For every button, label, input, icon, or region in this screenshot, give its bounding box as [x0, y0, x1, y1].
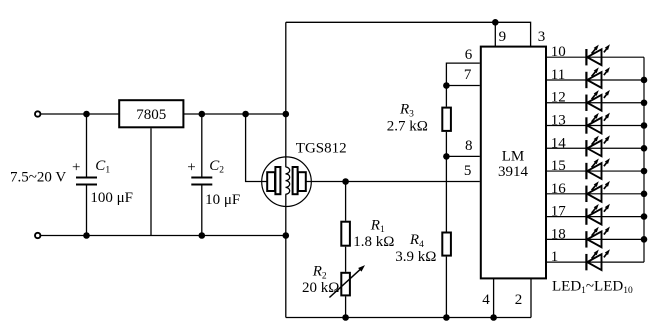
svg-text:7: 7: [464, 67, 472, 83]
svg-text:5: 5: [464, 163, 472, 179]
svg-text:10: 10: [551, 44, 566, 60]
svg-text:TGS812: TGS812: [296, 140, 347, 156]
svg-text:20 kΩ: 20 kΩ: [302, 280, 339, 296]
svg-text:LED1~LED10: LED1~LED10: [552, 279, 633, 297]
svg-text:7.5~20 V: 7.5~20 V: [10, 169, 66, 185]
svg-text:6: 6: [465, 47, 473, 63]
svg-text:7805: 7805: [136, 107, 166, 123]
svg-text:3914: 3914: [498, 164, 529, 180]
svg-text:12: 12: [551, 90, 566, 106]
svg-text:16: 16: [551, 181, 567, 197]
svg-text:13: 13: [551, 113, 566, 129]
svg-text:9: 9: [499, 29, 507, 45]
svg-text:1.8 kΩ: 1.8 kΩ: [353, 234, 394, 250]
svg-text:3: 3: [538, 29, 546, 45]
svg-text:17: 17: [551, 204, 567, 220]
svg-text:14: 14: [551, 135, 567, 151]
svg-text:15: 15: [551, 158, 566, 174]
svg-text:+: +: [72, 160, 80, 176]
svg-text:18: 18: [551, 226, 566, 242]
svg-text:10 μF: 10 μF: [205, 192, 240, 208]
svg-text:+: +: [187, 160, 195, 176]
svg-text:11: 11: [551, 67, 565, 83]
svg-text:LM: LM: [502, 149, 525, 165]
svg-text:4: 4: [482, 292, 490, 308]
svg-text:2.7 kΩ: 2.7 kΩ: [387, 119, 428, 135]
svg-text:3.9 kΩ: 3.9 kΩ: [395, 249, 436, 265]
svg-text:100 μF: 100 μF: [90, 190, 133, 206]
svg-text:1: 1: [551, 249, 559, 265]
svg-text:2: 2: [515, 292, 523, 308]
svg-text:8: 8: [465, 138, 473, 154]
